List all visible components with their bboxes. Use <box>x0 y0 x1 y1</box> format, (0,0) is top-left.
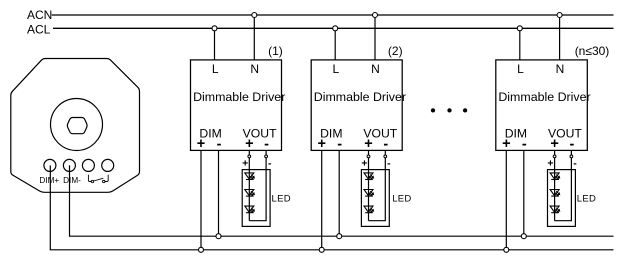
wire U1 DIM+ to DIM+ bus <box>200 150 202 249</box>
wire U2 L pin to ACL rail <box>334 28 336 60</box>
svg-text:-: - <box>264 137 269 153</box>
rotary dimmer body outline <box>11 59 140 193</box>
wire U2 VOUT+ to LED string <box>368 150 370 220</box>
svg-text:+: + <box>502 136 510 152</box>
wire DIM+ from dimmer to DIM+ bus <box>50 165 613 249</box>
svg-text:Dimmable Driver: Dimmable Driver <box>498 90 590 104</box>
LED module 2 enclosure <box>361 170 389 227</box>
LED module 3 enclosure <box>548 170 576 227</box>
svg-text:L: L <box>212 62 219 76</box>
svg-text:+: + <box>317 136 325 152</box>
terminal U1 VOUT+ connector <box>248 155 251 158</box>
wire net ACN rail <box>52 14 614 16</box>
terminal U1 VOUT- connector <box>265 155 268 158</box>
dimmable driver U2 <box>311 60 402 150</box>
junction U1 DIM- on bus <box>216 234 221 239</box>
wire U1 L pin to ACL rail <box>214 28 216 60</box>
wire net ACL rail <box>53 27 614 29</box>
wire U1 N pin to ACN rail <box>253 15 255 60</box>
rotary dimmer knob grip <box>67 118 87 134</box>
LED D21 <box>364 173 373 180</box>
svg-text:LED: LED <box>577 193 596 204</box>
dimmable driver U1 <box>191 60 282 150</box>
wire U3 N pin to ACN rail <box>559 15 561 60</box>
LED D21 emission arrows <box>369 175 374 180</box>
junction U3 DIM- on bus <box>521 234 526 239</box>
terminal switch b on dimmer <box>102 159 114 171</box>
LED D33 emission arrows <box>555 208 560 213</box>
junction U1 L on ACL <box>212 26 217 31</box>
junction U2 DIM+ on bus <box>319 247 324 252</box>
wire U3 VOUT+ to LED string <box>554 150 556 220</box>
terminal DIM- on dimmer <box>63 159 75 171</box>
LED D13 emission arrows <box>250 208 255 213</box>
svg-text:-: - <box>383 137 388 153</box>
terminal U2 VOUT- connector <box>384 155 387 158</box>
LED D33 <box>550 206 559 213</box>
LED module 1 enclosure <box>242 170 270 227</box>
svg-text:-: - <box>573 157 577 169</box>
ellipsis dots (more drivers) <box>431 108 467 112</box>
LED D22 <box>364 190 373 197</box>
terminal DIM+ on dimmer <box>44 159 56 171</box>
wire U3 VOUT- to LED string <box>555 150 572 220</box>
junction U3 L on ACL <box>517 26 522 31</box>
svg-text:+: + <box>197 136 205 152</box>
terminal U3 VOUT+ connector <box>553 155 556 158</box>
junction U1 DIM+ on bus <box>199 247 204 252</box>
svg-text:+: + <box>361 158 367 170</box>
LED D13 <box>245 206 254 213</box>
wire U1 VOUT- to LED string <box>249 150 266 220</box>
svg-text:-: - <box>337 137 342 153</box>
svg-text:(2): (2) <box>388 44 403 58</box>
svg-text:N: N <box>371 62 380 76</box>
LED D12 <box>245 190 254 197</box>
rotary dimmer knob circle <box>51 99 103 151</box>
svg-text:+: + <box>550 136 558 152</box>
svg-text:-: - <box>387 157 391 169</box>
wire U1 VOUT+ to LED string <box>248 150 250 220</box>
junction U2 L on ACL <box>333 26 338 31</box>
LED D23 emission arrows <box>369 208 374 213</box>
svg-text:+: + <box>242 158 248 170</box>
svg-text:-: - <box>569 137 574 153</box>
terminal U2 VOUT+ connector <box>367 155 370 158</box>
svg-text:ACN: ACN <box>27 8 52 22</box>
switch symbol on dimmer <box>88 175 108 183</box>
svg-text:Dimmable Driver: Dimmable Driver <box>193 90 285 104</box>
svg-text:+: + <box>245 136 253 152</box>
svg-text:-: - <box>268 157 272 169</box>
svg-text:LED: LED <box>272 193 291 204</box>
LED D22 emission arrows <box>369 191 374 196</box>
dimmable driver U3 <box>496 60 588 150</box>
wire U2 DIM+ to DIM+ bus <box>321 150 323 249</box>
LED D32 <box>550 190 559 197</box>
junction U2 N on ACN <box>373 13 378 18</box>
svg-text:+: + <box>364 136 372 152</box>
wire U3 L pin to ACL rail <box>519 28 521 60</box>
svg-text:(1): (1) <box>268 44 283 58</box>
wire U3 DIM- to DIM- bus <box>523 150 525 236</box>
junction U3 N on ACN <box>557 13 562 18</box>
LED D11 emission arrows <box>250 175 255 180</box>
LED D31 emission arrows <box>555 175 560 180</box>
svg-text:ACL: ACL <box>27 22 51 36</box>
LED D11 <box>245 173 254 180</box>
junction U3 DIM+ on bus <box>504 247 509 252</box>
wire U1 DIM- to DIM- bus <box>218 150 220 236</box>
svg-text:N: N <box>250 62 259 76</box>
wire U2 DIM- to DIM- bus <box>338 150 340 236</box>
LED D23 <box>364 206 373 213</box>
terminal switch a on dimmer <box>82 159 94 171</box>
wire U2 N pin to ACN rail <box>374 15 376 60</box>
LED D12 emission arrows <box>250 191 255 196</box>
svg-text:L: L <box>517 62 524 76</box>
wire DIM- from dimmer to DIM- bus <box>70 165 614 236</box>
svg-text:(n≤30): (n≤30) <box>575 44 610 58</box>
junction U2 DIM- on bus <box>337 234 342 239</box>
svg-text:DIM+: DIM+ <box>39 176 59 185</box>
svg-text:-: - <box>522 137 527 153</box>
terminal U3 VOUT- connector <box>570 155 573 158</box>
LED D31 <box>550 173 559 180</box>
svg-text:LED: LED <box>392 193 411 204</box>
junction U1 N on ACN <box>252 13 257 18</box>
svg-text:+: + <box>547 158 553 170</box>
wire U3 DIM+ to DIM+ bus <box>505 150 507 249</box>
svg-text:-: - <box>217 137 222 153</box>
svg-text:DIM-: DIM- <box>63 176 81 185</box>
svg-text:Dimmable Driver: Dimmable Driver <box>314 90 406 104</box>
svg-text:L: L <box>333 62 340 76</box>
LED D32 emission arrows <box>555 191 560 196</box>
wire U2 VOUT- to LED string <box>369 150 386 220</box>
svg-text:N: N <box>556 62 565 76</box>
